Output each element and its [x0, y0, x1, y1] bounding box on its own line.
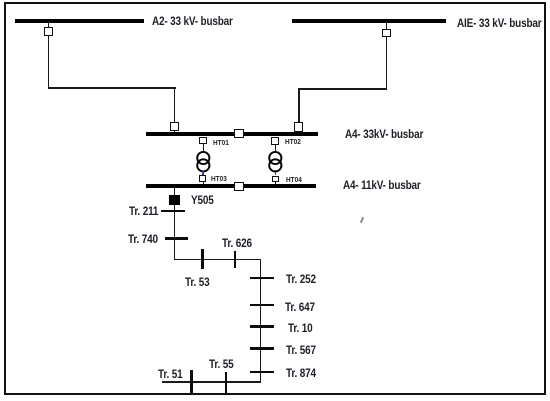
- stray mark: [359, 217, 363, 223]
- wire A2 drop to switch: [48, 23, 49, 27]
- busbar A4 33kV: [146, 132, 318, 136]
- busbar A4 11kV: [146, 184, 316, 188]
- wire AIE drop to switch: [386, 23, 387, 29]
- label Tr. 252: [286, 273, 316, 285]
- wire S4 to busbar: [298, 131, 299, 133]
- label Tr. 55: [209, 358, 233, 370]
- wire HT03 to 11kV busbar: [203, 182, 205, 184]
- label Tr. 53: [185, 276, 209, 288]
- label Tr. 647: [285, 301, 315, 313]
- label Tr. 874: [286, 367, 316, 379]
- tick Tr. 252: [250, 277, 274, 280]
- label Tr. 626: [222, 237, 252, 249]
- label HT01: [213, 139, 229, 146]
- tick Tr. 51 branch: [190, 370, 193, 393]
- wire down to S4: [298, 88, 299, 122]
- blue tick below T2: [275, 172, 277, 175]
- tick Tr. 647: [250, 304, 274, 307]
- wire bottom horizontal: [162, 381, 262, 382]
- busbar AIE 33kV: [292, 19, 446, 23]
- wire HT04 to 11kV busbar: [275, 182, 277, 184]
- label Tr. 211: [129, 205, 158, 217]
- bus coupler square on 33kV busbar: [234, 129, 244, 138]
- feeder Y505 drop from 11kV busbar: [174, 188, 175, 260]
- wire HT02 to transformer: [275, 145, 277, 152]
- label A4- 33kV- busbar: [345, 128, 423, 140]
- wire HT01 to transformer: [203, 144, 205, 152]
- switch S1 on A2 feeder: [44, 27, 53, 36]
- switch HT02: [271, 137, 279, 144]
- tick Tr. 55 branch: [225, 372, 228, 394]
- label A2- 33 kV- busbar: [152, 15, 233, 27]
- transformer T2 (HT02/HT04): [265, 148, 286, 176]
- blue tick below T1: [202, 171, 204, 175]
- switch S4 above A4-33kV busbar: [294, 122, 303, 131]
- wire down to S3: [174, 87, 175, 122]
- transformer T1 (HT01/HT03): [193, 148, 214, 176]
- switch HT01: [199, 137, 208, 145]
- wire S3 to busbar: [174, 131, 175, 133]
- tick Tr. 740: [165, 237, 189, 240]
- label Tr. 10: [288, 322, 312, 334]
- label A4- 11kV- busbar: [343, 179, 421, 191]
- tick Tr. 567: [250, 347, 274, 350]
- wire S1 down: [48, 36, 49, 87]
- wire horizontal mid feeder: [174, 259, 262, 260]
- wire horizontal A2 to A4: [48, 87, 176, 88]
- busbar A2 33kV: [15, 19, 144, 23]
- tick Tr. 211: [161, 210, 185, 213]
- wire vertical right feeder: [260, 259, 261, 382]
- label AIE- 33 kV- busbar: [457, 17, 541, 29]
- label Y505: [191, 194, 214, 206]
- label HT04: [286, 176, 302, 183]
- wire S2 down: [386, 37, 387, 88]
- switch HT04: [272, 176, 279, 183]
- bus coupler square on 11kV busbar: [234, 182, 244, 191]
- tick Tr. 626 branch: [234, 251, 237, 268]
- label Tr. 567: [286, 344, 316, 356]
- wire horizontal AIE to A4: [298, 88, 387, 89]
- label HT03: [211, 175, 227, 182]
- switch S2 on AIE feeder: [382, 29, 392, 38]
- label Tr. 740: [128, 233, 158, 245]
- switch S3 above A4-33kV busbar: [170, 122, 179, 131]
- tick Tr. 874: [250, 371, 274, 374]
- label HT02: [285, 138, 301, 145]
- breaker Y505 (filled): [169, 195, 180, 205]
- tick Tr. 53 branch: [201, 249, 204, 269]
- tick Tr. 10: [250, 325, 274, 328]
- switch HT03: [199, 175, 207, 182]
- label Tr. 51: [158, 368, 182, 380]
